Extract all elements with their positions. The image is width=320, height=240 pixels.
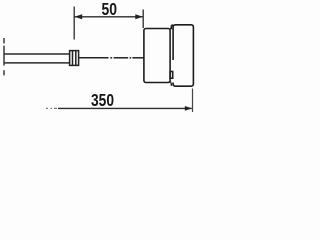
svg-text:350: 350 xyxy=(91,90,114,110)
svg-text:50: 50 xyxy=(102,0,118,19)
